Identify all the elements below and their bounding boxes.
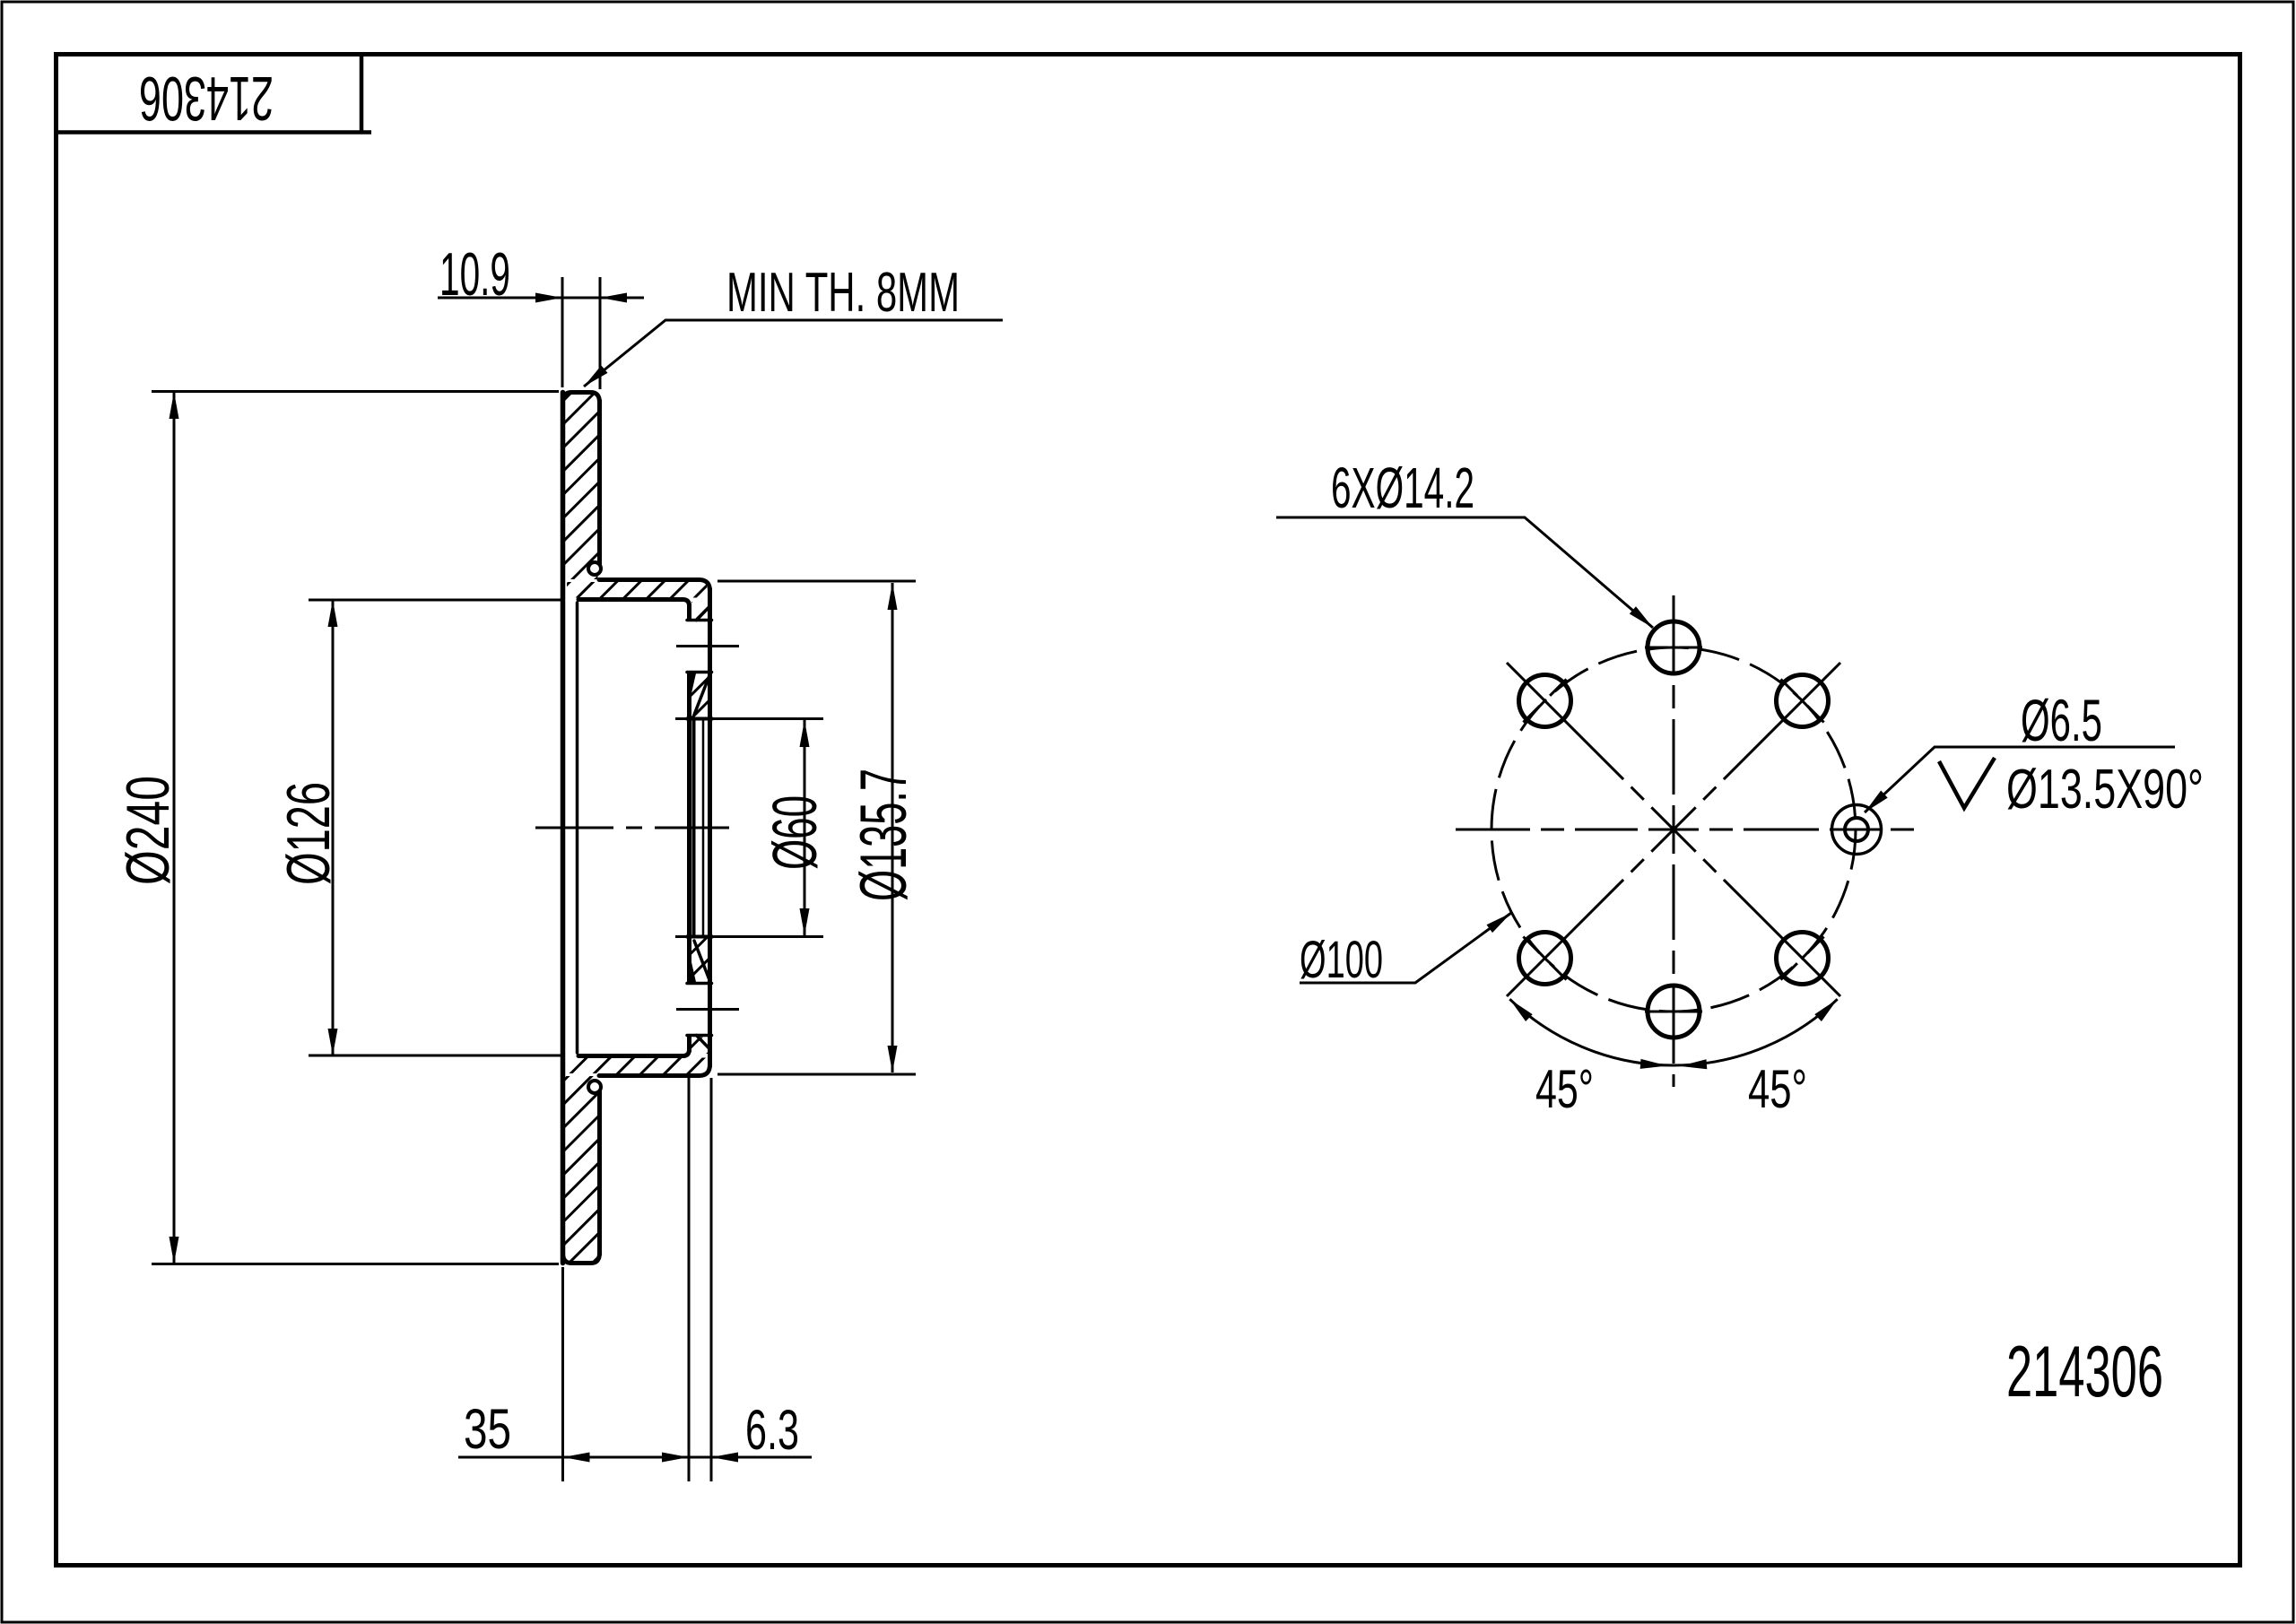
svg-text:Ø100: Ø100: [1300, 931, 1383, 989]
svg-text:Ø126: Ø126: [274, 782, 343, 885]
svg-text:214306: 214306: [139, 64, 274, 134]
hub inner face lower: [687, 1037, 691, 1051]
upper bolt hole axis tick: [676, 645, 739, 647]
hub inner face mid-upper: [687, 674, 691, 982]
dim arrows left view: [170, 293, 898, 1463]
bolt hole upper: top edge: [687, 619, 712, 622]
svg-text:45°: 45°: [1748, 1059, 1807, 1119]
leader dia100: [1300, 913, 1511, 983]
section hatch: hat bottom wall: [567, 1058, 707, 1074]
section hatch: hat top wall: [567, 582, 707, 598]
45 deg dimension arc: [1509, 999, 1837, 1065]
dim 35 / 6.3 dimension line: [458, 1456, 812, 1459]
solid wedge above lower bolt hole: [687, 942, 696, 982]
svg-text:Ø6.5: Ø6.5: [2021, 687, 2102, 753]
section hatch: hub wall upper segment: [691, 602, 709, 619]
countersink circle dia13.5: [1832, 805, 1882, 855]
bolt hole lower: top edge: [687, 982, 712, 986]
section centerline (horizontal dash-dot): [535, 827, 729, 829]
undercut groove circle (top junction): [588, 562, 601, 575]
lower bolt hole axis tick: [676, 1008, 739, 1011]
dim 126 dimension line: [332, 600, 335, 1055]
bolt holes dia14.2: [1519, 621, 1829, 1038]
countersink V symbol: [1939, 758, 1995, 808]
svg-text:Ø60: Ø60: [760, 795, 830, 870]
solid wedge below upper bolt hole: [687, 673, 696, 713]
dim 10.9 dimension line: [438, 297, 644, 300]
svg-text:Ø240: Ø240: [114, 776, 182, 885]
svg-text:214306: 214306: [2006, 1332, 2163, 1412]
front view vertical centerline: [1673, 595, 1675, 1087]
front view leader arrows: [1487, 606, 1888, 1069]
front view horizontal centerline: [1456, 829, 1914, 831]
hat top wall outer line with corner fillet: [599, 580, 710, 592]
dim 240 dimension line: [173, 392, 176, 1264]
band outer face (left, full height): [561, 393, 566, 1264]
hat bottom wall outer line with corner fillet: [599, 1064, 710, 1076]
svg-text:MIN TH. 8MM: MIN TH. 8MM: [726, 262, 960, 324]
band inner face lower segment: [597, 1090, 602, 1255]
svg-text:Ø13.5X90°: Ø13.5X90°: [2006, 759, 2204, 821]
front view diagonal centerline NW-SE: [1507, 663, 1840, 996]
bore silhouette line 1: [692, 719, 696, 937]
dim 135.7 extension lines: [717, 581, 916, 1074]
hub outer face (right): [708, 589, 712, 1066]
band inner face upper segment: [597, 401, 602, 566]
bolt circle dia100 (dashed): [1492, 647, 1856, 1012]
section hatch: hub wall below bore: [691, 939, 709, 982]
leader 6X dia14.2: [1276, 517, 1653, 628]
section hatch: hub wall lower segment: [691, 1038, 709, 1055]
title box: [56, 54, 371, 133]
band top edge with rounded corners: [563, 393, 600, 404]
dim 10.9 extension lines: [562, 277, 600, 389]
svg-text:Ø135.7: Ø135.7: [848, 769, 920, 901]
svg-text:35: 35: [464, 1398, 511, 1461]
undercut groove circle (bottom junction): [588, 1081, 601, 1093]
bolt hole upper: bottom edge: [687, 671, 712, 674]
dim 135.7 dimension line: [891, 583, 894, 1073]
leader MIN TH. 8MM: [584, 320, 1003, 386]
dim 240 extension lines: [152, 392, 559, 1264]
hat bottom wall inner line with corner fillet: [578, 1049, 690, 1056]
svg-text:6.3: 6.3: [745, 1399, 799, 1462]
hat top wall inner line with corner fillet: [578, 600, 690, 607]
small hole dia6.5 at 3 oclock: [1845, 818, 1868, 841]
dim 35 and 6.3 extension lines: [563, 1078, 712, 1481]
band bottom edge with rounded corners: [563, 1253, 600, 1264]
leader dia6.5 countersink: [1865, 747, 2175, 812]
svg-text:45°: 45°: [1535, 1059, 1594, 1119]
section hatch: brake band lower: [565, 1076, 598, 1261]
hub recess edge (dia 126 cylinder): [576, 603, 579, 1053]
bolt hole upper: countersink chamfer lines: [694, 606, 710, 715]
bolt hole lower: bottom edge: [687, 1034, 712, 1038]
dim 60 extension lines: [675, 719, 823, 937]
dim 126 extension lines: [309, 600, 564, 1055]
front view diagonal centerline SW-NE: [1507, 663, 1840, 996]
bolt hole cross ticks: [1523, 647, 1823, 1012]
bore silhouette line 2: [702, 719, 705, 937]
hub inner face upper: [687, 604, 691, 619]
dim 60 dimension line: [804, 720, 806, 935]
svg-text:10.9: 10.9: [439, 240, 510, 308]
section hatch: hub wall above bore: [691, 674, 709, 717]
bolt hole lower: countersink chamfer lines: [694, 941, 710, 1049]
svg-text:6XØ14.2: 6XØ14.2: [1331, 456, 1474, 520]
centre bore top edge: [687, 717, 712, 721]
centre bore bottom edge: [687, 935, 712, 939]
section hatch: brake band upper: [565, 395, 598, 579]
